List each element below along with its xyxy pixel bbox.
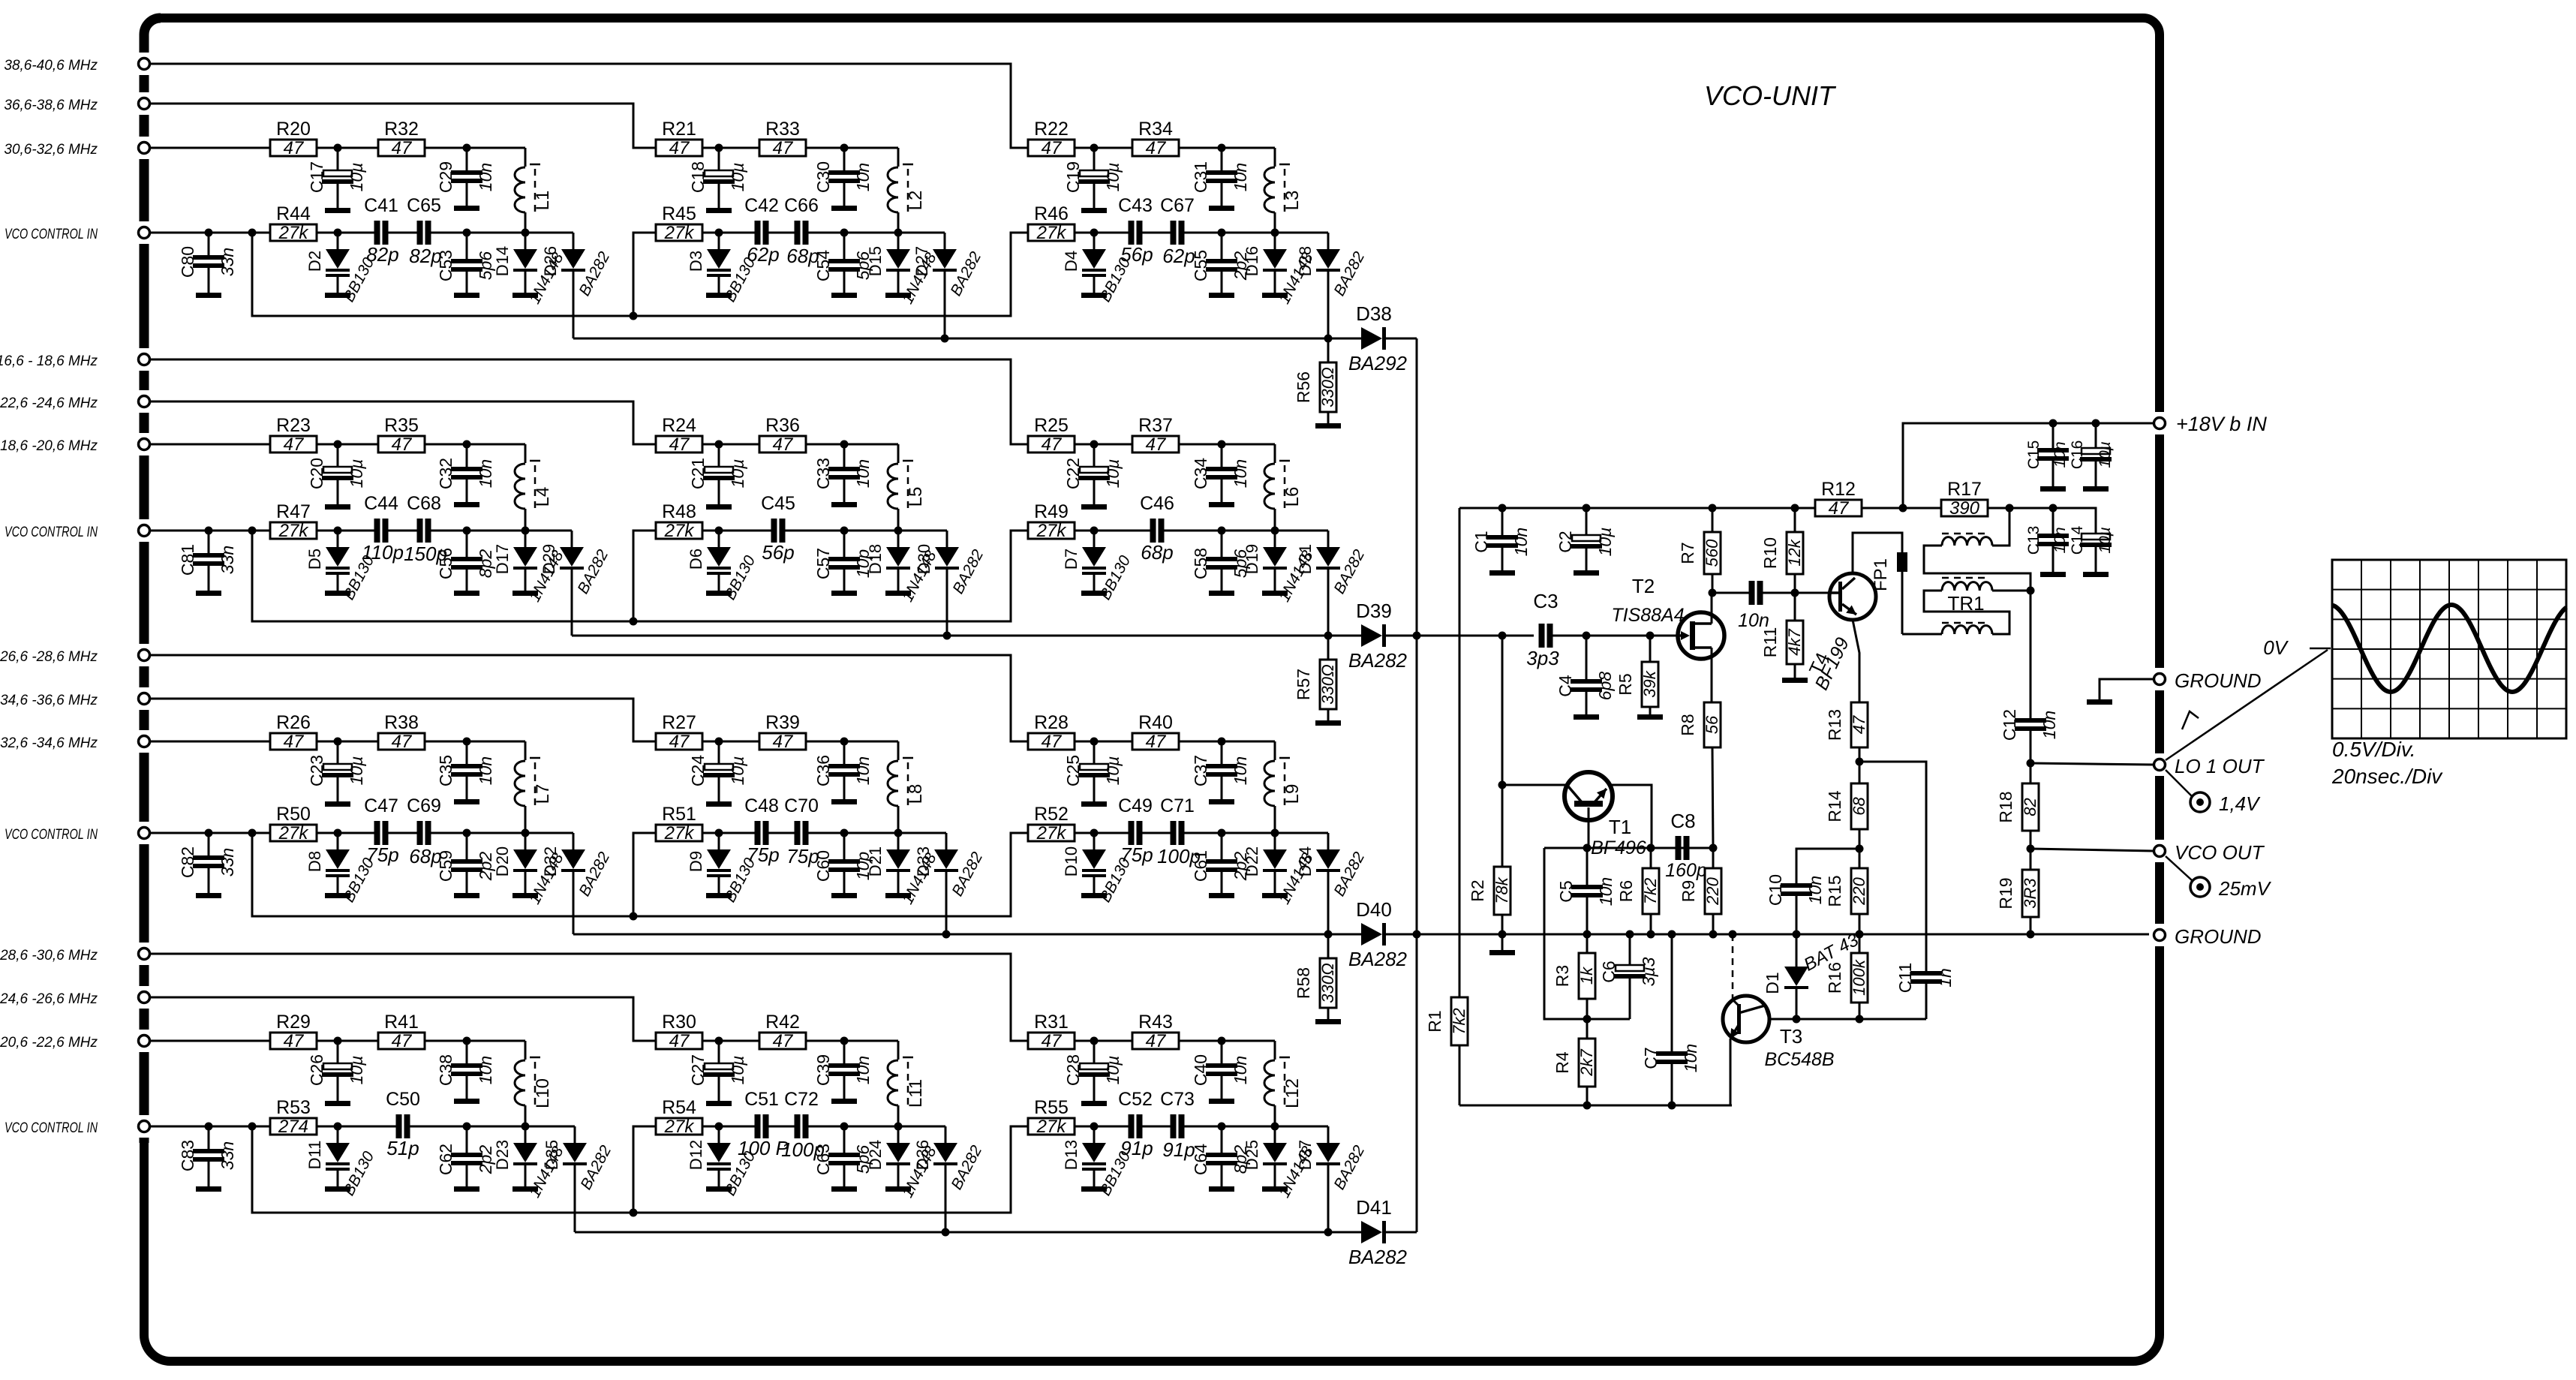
- node R17-out: [2006, 504, 2014, 513]
- svg-text:D8: D8: [305, 851, 324, 872]
- svg-text:C44: C44: [364, 493, 398, 514]
- svg-text:R53: R53: [276, 1097, 311, 1118]
- wire: [2100, 679, 2154, 699]
- capacitor C68: [404, 493, 447, 565]
- node bus-col2: [942, 931, 951, 939]
- svg-text:0.5V/Div.: 0.5V/Div.: [2332, 738, 2416, 761]
- wire bus: [573, 934, 1328, 936]
- svg-text:D21: D21: [866, 846, 885, 876]
- wire T3 base dashed: [1729, 931, 1737, 1000]
- wire: [1179, 741, 1222, 743]
- label 0.5V/Div.: [2332, 738, 2416, 761]
- wire: [2009, 508, 2096, 534]
- node R13-R14: [1856, 758, 1864, 766]
- svg-text:47: 47: [284, 138, 305, 158]
- svg-text:D32: D32: [541, 846, 560, 876]
- capacitor C47: [364, 795, 399, 866]
- node R54-out: [715, 1123, 723, 1131]
- svg-text:D20: D20: [493, 846, 512, 876]
- wire: [1222, 741, 1275, 760]
- resistor R30: [656, 1012, 702, 1051]
- resistor R49: [1028, 501, 1075, 541]
- diode D31: [1296, 531, 1368, 597]
- ground: [512, 893, 538, 898]
- svg-text:12k: 12k: [1785, 539, 1804, 566]
- node R46-out: [1090, 229, 1099, 237]
- node riser-col2: [630, 1209, 638, 1217]
- ground: [831, 1186, 857, 1192]
- capacitor C33: [813, 444, 873, 502]
- wire: [252, 1126, 270, 1128]
- svg-text:47: 47: [284, 732, 305, 752]
- inductor L10: [515, 1057, 553, 1126]
- wire: [338, 443, 378, 446]
- resistor R56: [1294, 338, 1337, 423]
- diode D19: [1243, 531, 1317, 605]
- capacitor C13: [2025, 508, 2069, 572]
- capacitor C19: [1063, 148, 1123, 208]
- svg-text:D29: D29: [540, 544, 558, 574]
- ground: [1209, 591, 1234, 596]
- resistor R54: [656, 1097, 702, 1137]
- wire riser col2: [633, 833, 656, 916]
- wire riser col2: [633, 233, 656, 316]
- svg-text:+18V b IN: +18V b IN: [2176, 413, 2267, 435]
- svg-text:47: 47: [1146, 138, 1167, 158]
- resistor R47: [270, 501, 317, 541]
- svg-text:D22: D22: [1243, 846, 1261, 876]
- diode D33: [914, 833, 986, 899]
- svg-text:27k: 27k: [664, 521, 696, 541]
- capacitor C3: [1526, 590, 1559, 669]
- ground: [831, 591, 857, 596]
- svg-text:47: 47: [392, 1031, 413, 1051]
- svg-text:D18: D18: [866, 544, 885, 574]
- capacitor C82: [178, 833, 237, 893]
- wire: [1327, 1165, 1330, 1232]
- svg-text:C18: C18: [688, 161, 708, 193]
- wire: [1179, 443, 1222, 446]
- node C53-top: [463, 229, 471, 237]
- capacitor C81: [178, 531, 237, 591]
- node R26-R38: [334, 738, 342, 746]
- wire: [317, 232, 338, 234]
- resistor R11: [1760, 593, 1804, 678]
- wire: [844, 530, 898, 532]
- wire: [844, 741, 898, 760]
- transistor T4: [1805, 573, 1876, 693]
- ground: [1262, 293, 1288, 298]
- svg-text:R43: R43: [1138, 1012, 1173, 1033]
- ground: [706, 893, 732, 898]
- svg-text:R1: R1: [1425, 1010, 1444, 1032]
- node dist-drop: [248, 1123, 257, 1131]
- ground: [1081, 504, 1107, 510]
- capacitor C23: [307, 741, 366, 801]
- wire: [1142, 1126, 1171, 1128]
- resistor R6: [1616, 848, 1660, 934]
- svg-text:C35: C35: [436, 755, 455, 786]
- svg-text:3R3: 3R3: [2021, 878, 2039, 909]
- ground: [325, 1101, 350, 1106]
- svg-text:33n: 33n: [218, 546, 237, 574]
- node C62-top: [463, 1123, 471, 1131]
- wire: [338, 147, 378, 149]
- svg-text:R25: R25: [1034, 415, 1069, 436]
- svg-text:10µ: 10µ: [728, 756, 747, 786]
- svg-text:VCO CONTROL IN: VCO CONTROL IN: [5, 827, 98, 843]
- wire: [1184, 1126, 1222, 1128]
- node R29-R41: [334, 1037, 342, 1045]
- svg-text:10n: 10n: [1231, 459, 1250, 488]
- svg-text:10µ: 10µ: [347, 459, 366, 489]
- inductor L12: [1264, 1057, 1303, 1126]
- wire: [844, 1041, 898, 1060]
- node T1C: [1583, 844, 1592, 852]
- ground: [706, 1101, 732, 1106]
- resistor R5: [1616, 636, 1659, 714]
- wire: [425, 741, 467, 743]
- wire: [338, 530, 374, 532]
- wire: [573, 272, 575, 338]
- node R48-out: [715, 527, 723, 535]
- wire: [844, 232, 898, 234]
- svg-text:C3: C3: [1533, 590, 1558, 612]
- svg-text:LO 1 OUT: LO 1 OUT: [2175, 755, 2265, 777]
- node bus-row2: [1413, 632, 1421, 640]
- svg-text:2k7: 2k7: [1577, 1049, 1596, 1077]
- wire: [806, 741, 844, 743]
- wire: [525, 1126, 575, 1128]
- svg-text:R21: R21: [662, 119, 696, 140]
- wire: [844, 1126, 898, 1128]
- terminal 32,6 -34,6 MHz: [0, 735, 149, 751]
- svg-text:D25: D25: [1243, 1140, 1261, 1170]
- wire: [806, 443, 844, 446]
- border frame right segments: [2155, 407, 2164, 952]
- wire: [808, 232, 844, 234]
- diode D21: [866, 833, 940, 907]
- inductor L4: [515, 461, 553, 531]
- capacitor C21: [688, 444, 747, 504]
- capacitor C83: [178, 1126, 237, 1186]
- wire: [702, 147, 719, 149]
- svg-text:220: 220: [1850, 876, 1868, 905]
- wire: [467, 1041, 525, 1060]
- svg-text:D6: D6: [687, 549, 705, 570]
- svg-text:L2: L2: [906, 191, 926, 211]
- node bus-col3: [1324, 632, 1333, 640]
- svg-text:C28: C28: [1063, 1054, 1083, 1086]
- svg-text:56: 56: [1703, 715, 1721, 734]
- label TR1: [1947, 592, 1984, 615]
- border frame left segments: [140, 47, 149, 1143]
- node R33-out: [840, 144, 849, 152]
- svg-text:25mV: 25mV: [2218, 877, 2272, 900]
- svg-text:D16: D16: [1243, 246, 1261, 276]
- varactor D7: [1062, 531, 1134, 603]
- svg-text:10n: 10n: [1231, 163, 1250, 191]
- capacitor C8: [1665, 810, 1707, 881]
- wire: [149, 401, 656, 444]
- ground: [454, 293, 479, 298]
- resistor R51: [656, 804, 702, 843]
- node rail: [1668, 931, 1676, 939]
- ground: [1081, 293, 1107, 298]
- svg-text:51p: 51p: [386, 1137, 419, 1159]
- svg-text:0V: 0V: [2263, 636, 2289, 659]
- svg-text:R47: R47: [276, 501, 311, 522]
- svg-text:274: 274: [278, 1117, 308, 1137]
- ground: [325, 801, 350, 807]
- node riser-col2: [630, 312, 638, 320]
- svg-text:L8: L8: [906, 784, 926, 804]
- ground: [831, 293, 857, 298]
- wire: [209, 1126, 252, 1128]
- terminal GROUND: [2154, 669, 2262, 692]
- ground: [1081, 208, 1107, 213]
- svg-text:GROUND: GROUND: [2175, 669, 2262, 692]
- ground: [706, 208, 732, 213]
- capacitor C20: [307, 444, 366, 504]
- resistor R42: [759, 1012, 806, 1051]
- svg-text:R7: R7: [1678, 542, 1697, 564]
- svg-text:C8: C8: [1670, 810, 1695, 832]
- capacitor C45: [761, 493, 795, 564]
- ground: [885, 893, 911, 898]
- svg-text:D37: D37: [1296, 1140, 1315, 1170]
- capacitor C56: [436, 531, 495, 591]
- node R14-R15: [1856, 845, 1864, 853]
- svg-text:D3: D3: [687, 251, 705, 272]
- svg-text:D4: D4: [1062, 251, 1081, 272]
- wire: [149, 832, 209, 834]
- svg-text:10µ: 10µ: [347, 1056, 366, 1085]
- varactor D9: [687, 833, 759, 905]
- wire: [388, 832, 417, 834]
- ground: [831, 1099, 857, 1104]
- node R22-R34: [1090, 144, 1099, 152]
- svg-text:D28: D28: [1296, 246, 1315, 276]
- svg-text:C5: C5: [1556, 880, 1576, 902]
- resistor R57: [1294, 636, 1337, 720]
- wire: [317, 1040, 338, 1042]
- wire: [425, 443, 467, 446]
- svg-text:D38: D38: [1356, 302, 1392, 325]
- resistor R43: [1132, 1012, 1179, 1051]
- wire: [338, 1040, 378, 1042]
- wire R2 drop: [1501, 636, 1504, 867]
- ground: [2040, 572, 2066, 577]
- wire T1 collector: [1588, 807, 1590, 848]
- svg-text:10µ: 10µ: [347, 756, 366, 786]
- svg-text:R27: R27: [662, 712, 696, 733]
- node R34-out: [1218, 144, 1226, 152]
- svg-text:C67: C67: [1160, 195, 1195, 216]
- svg-text:36,6-38,6 MHz: 36,6-38,6 MHz: [4, 98, 98, 113]
- svg-text:D11: D11: [305, 1141, 324, 1170]
- svg-text:C24: C24: [688, 755, 708, 786]
- resistor R15: [1825, 849, 1868, 934]
- terminal 30,6-32,6 MHz: [4, 142, 149, 158]
- svg-text:10µ: 10µ: [728, 163, 747, 192]
- resistor R13: [1825, 702, 1868, 762]
- wire riser col2: [633, 531, 656, 621]
- node R25-R37: [1090, 440, 1099, 449]
- resistor R55: [1028, 1097, 1075, 1137]
- ground: [1209, 1099, 1234, 1104]
- wire rail to R1: [1459, 508, 1461, 997]
- svg-text:27k: 27k: [1036, 1117, 1068, 1137]
- ground: [1262, 1186, 1288, 1192]
- svg-text:C40: C40: [1191, 1054, 1210, 1086]
- wire: [945, 872, 948, 934]
- svg-text:47: 47: [669, 732, 690, 752]
- svg-text:10n: 10n: [853, 756, 873, 785]
- svg-text:L10: L10: [533, 1078, 553, 1108]
- svg-text:L1: L1: [533, 191, 553, 211]
- ground: [454, 799, 479, 804]
- svg-text:VCO-UNIT: VCO-UNIT: [1704, 80, 1837, 111]
- terminal 20,6 -22,6 MHz: [0, 1035, 150, 1051]
- terminal VCO CONTROL IN: [5, 827, 150, 843]
- ground: [454, 1186, 479, 1192]
- node R55-out: [1090, 1123, 1099, 1131]
- svg-text:47: 47: [1042, 434, 1063, 455]
- node R41-out: [463, 1037, 471, 1045]
- svg-text:330Ω: 330Ω: [1318, 367, 1337, 407]
- ground: [831, 206, 857, 211]
- svg-text:D15: D15: [866, 246, 885, 276]
- node TR1-C12: [2027, 587, 2035, 595]
- wire: [1075, 147, 1094, 149]
- wire T3 collector: [1765, 1006, 1796, 1019]
- svg-text:10µ: 10µ: [728, 459, 747, 489]
- svg-text:47: 47: [1146, 1031, 1167, 1051]
- diode D38: [1328, 302, 1417, 374]
- node C61-top: [1218, 829, 1226, 837]
- inductor L7: [515, 758, 553, 833]
- node R7: [1709, 504, 1717, 513]
- node R35-out: [463, 440, 471, 449]
- wire distribution: [633, 833, 1028, 916]
- node L7-D20: [522, 829, 530, 837]
- svg-text:C23: C23: [307, 755, 326, 786]
- wire: [1222, 444, 1275, 463]
- svg-text:C41: C41: [364, 195, 398, 216]
- terminal VCO CONTROL IN: [5, 1120, 150, 1136]
- node R38-out: [463, 738, 471, 746]
- capacitor C14: [2069, 525, 2114, 572]
- ground: [1081, 1186, 1107, 1192]
- svg-text:10µ: 10µ: [1103, 1056, 1123, 1085]
- capacitor C36: [813, 741, 873, 799]
- node C2: [1583, 504, 1591, 513]
- ground: [1209, 502, 1234, 507]
- svg-text:T1: T1: [1609, 816, 1631, 838]
- resistor R46: [1028, 203, 1075, 243]
- wire bus: [573, 338, 1328, 340]
- ground: [454, 591, 479, 596]
- svg-text:10n: 10n: [853, 163, 873, 191]
- capacitor C34: [1191, 444, 1250, 502]
- wire: [252, 832, 270, 834]
- wire: [252, 232, 270, 234]
- capacitor C29: [436, 148, 495, 206]
- svg-text:C13: C13: [2025, 526, 2042, 555]
- label 0V: [2263, 636, 2331, 659]
- wire: [1075, 741, 1094, 743]
- resistor R7: [1678, 508, 1721, 593]
- ground: [885, 1186, 911, 1192]
- ground: [325, 504, 350, 510]
- diode D34: [1296, 833, 1368, 899]
- node R44-out: [334, 229, 342, 237]
- resistor R27: [656, 712, 702, 752]
- capacitor C53: [436, 233, 495, 293]
- ground: [1489, 570, 1515, 576]
- ground: [1315, 720, 1341, 726]
- svg-text:R18: R18: [1996, 791, 2015, 822]
- svg-text:47: 47: [773, 1031, 794, 1051]
- svg-text:BA292: BA292: [1348, 352, 1408, 374]
- resistor R31: [1028, 1012, 1075, 1051]
- svg-text:R20: R20: [276, 119, 311, 140]
- inductor L6: [1264, 461, 1303, 531]
- border frame bottom: [144, 952, 2160, 1361]
- resistor R24: [656, 415, 702, 455]
- wire: [431, 232, 467, 234]
- wire: [467, 444, 525, 463]
- ground: [706, 293, 732, 298]
- capacitor C51: [738, 1089, 789, 1159]
- svg-text:47: 47: [773, 434, 794, 455]
- node: [1856, 1015, 1864, 1024]
- svg-text:C63: C63: [813, 1144, 833, 1175]
- svg-text:C31: C31: [1191, 161, 1210, 193]
- svg-text:R15: R15: [1825, 875, 1844, 906]
- capacitor C46: [1140, 493, 1174, 564]
- wire: [1184, 832, 1222, 834]
- capacitor C15: [2025, 423, 2069, 486]
- node bus-col2: [943, 632, 951, 640]
- oscilloscope graticule: [2332, 560, 2566, 738]
- svg-text:D19: D19: [1243, 544, 1261, 574]
- svg-text:C48: C48: [744, 795, 779, 816]
- wire: [525, 832, 573, 834]
- wire: [768, 232, 795, 234]
- diode D14: [493, 233, 567, 307]
- wire: [1222, 530, 1275, 532]
- node R42-out: [840, 1037, 849, 1045]
- inductor L11: [888, 1057, 926, 1126]
- svg-text:22,6 -24,6 MHz: 22,6 -24,6 MHz: [0, 395, 98, 411]
- svg-text:10n: 10n: [853, 1056, 873, 1084]
- wire: [149, 64, 1028, 148]
- node C4: [1583, 632, 1591, 640]
- svg-text:R14: R14: [1825, 790, 1844, 822]
- ground: [1782, 678, 1808, 683]
- svg-text:C32: C32: [436, 458, 455, 489]
- resistor R25: [1028, 415, 1075, 455]
- resistor R37: [1132, 415, 1179, 455]
- svg-text:47: 47: [1850, 715, 1868, 734]
- ground: [454, 893, 479, 898]
- wire: [898, 1126, 945, 1128]
- node bus-col3: [1324, 1228, 1333, 1237]
- node VCO OUT: [2027, 845, 2035, 853]
- node L8-D21: [894, 829, 903, 837]
